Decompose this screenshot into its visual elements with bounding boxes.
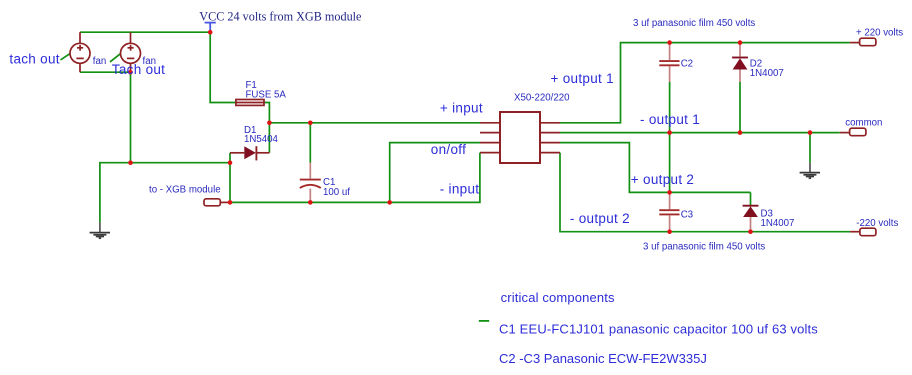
- svg-text:+ input: + input: [440, 100, 483, 115]
- svg-text:+ output 1: + output 1: [551, 71, 614, 86]
- svg-text:VCC 24 volts from XGB module: VCC 24 volts from XGB module: [199, 9, 361, 23]
- svg-text:-220 volts: -220 volts: [856, 218, 898, 229]
- svg-text:FUSE 5A: FUSE 5A: [246, 90, 287, 101]
- svg-text:on/off: on/off: [431, 142, 466, 157]
- svg-text:tach out: tach out: [9, 52, 59, 67]
- svg-text:X50-220/220: X50-220/220: [514, 93, 570, 104]
- svg-text:1N5404: 1N5404: [244, 134, 279, 145]
- svg-text:C3: C3: [681, 210, 693, 221]
- svg-text:to - XGB module: to - XGB module: [149, 184, 221, 195]
- svg-text:C2: C2: [681, 59, 693, 70]
- svg-text:3 uf panasonic film 450 volts: 3 uf panasonic film 450 volts: [633, 18, 755, 29]
- svg-text:Tach out: Tach out: [112, 62, 165, 77]
- svg-text:+ 220 volts: + 220 volts: [856, 28, 903, 39]
- svg-text:C1 EEU-FC1J101 panasonic capac: C1 EEU-FC1J101 panasonic capacitor 100 u…: [499, 321, 818, 336]
- svg-text:1N4007: 1N4007: [761, 218, 795, 229]
- svg-text:common: common: [845, 118, 882, 129]
- svg-text:C2 -C3 Panasonic ECW-FE2W335J: C2 -C3 Panasonic ECW-FE2W335J: [499, 351, 707, 366]
- svg-text:- output 1: - output 1: [640, 112, 700, 127]
- svg-text:+ output 2: + output 2: [631, 172, 694, 187]
- svg-text:3 uf panasonic film 450 volts: 3 uf panasonic film 450 volts: [643, 241, 765, 252]
- svg-text:fan: fan: [93, 56, 106, 67]
- svg-text:critical components: critical components: [501, 290, 615, 305]
- svg-text:- output 2: - output 2: [570, 211, 630, 226]
- svg-text:100 uf: 100 uf: [323, 187, 350, 198]
- svg-text:1N4007: 1N4007: [750, 68, 784, 79]
- svg-text:- input: - input: [440, 182, 480, 197]
- svg-text:fan: fan: [143, 56, 156, 67]
